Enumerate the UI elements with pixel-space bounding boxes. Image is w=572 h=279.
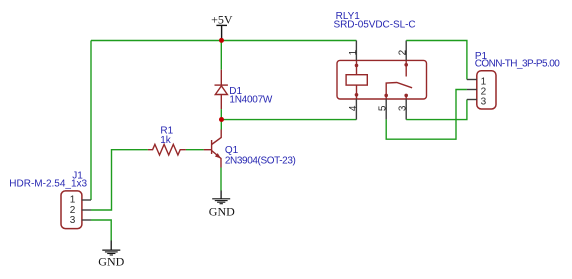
wire: relay pin 5 to P1 pin 2 <box>386 90 467 140</box>
svg-text:Q1: Q1 <box>225 145 239 156</box>
svg-text:1: 1 <box>70 195 76 206</box>
pin stub RLY1-3 <box>405 99 407 120</box>
relay RLY1 body <box>337 60 427 99</box>
svg-text:1: 1 <box>348 49 359 55</box>
ground: Q1 emitter GND <box>212 191 230 204</box>
ground: J1 pin 3 GND <box>102 241 120 256</box>
junction: coil bottom <box>355 93 359 97</box>
wire: +5V top rail from left column to relay pin 1 <box>91 40 356 42</box>
relay coil <box>346 60 367 99</box>
wire: junction to D1 cathode pin <box>220 41 222 70</box>
pin stub J1-2 <box>82 209 91 211</box>
wire: D1 anode to collector node <box>220 109 222 120</box>
svg-text:3: 3 <box>70 215 76 226</box>
pin stub P1-2 <box>467 89 477 91</box>
pin stub J1-1 <box>82 199 91 201</box>
wire: relay pin 2 to P1 pin 1 <box>406 41 467 80</box>
pin stub RLY1-4 <box>355 99 357 120</box>
connector J1 <box>61 191 82 229</box>
svg-text:HDR-M-2.54_1x3: HDR-M-2.54_1x3 <box>9 179 87 190</box>
svg-text:3: 3 <box>481 96 487 107</box>
resistor R1 <box>148 144 186 155</box>
wire: collector node down to Q1 collector <box>220 120 222 130</box>
wire: J1 pin 3 down to ground <box>91 220 111 241</box>
wire: left vertical from top rail down to J1 pin 1 <box>90 41 92 201</box>
power +5V <box>211 12 233 40</box>
relay switch <box>386 60 412 99</box>
svg-text:CONN-TH_3P-P5.00: CONN-TH_3P-P5.00 <box>475 59 561 70</box>
connector P1 <box>477 71 496 109</box>
pin stub P1-3 <box>467 99 477 101</box>
svg-text:SRD-05VDC-SL-C: SRD-05VDC-SL-C <box>334 20 416 31</box>
wire: relay pin 3 to P1 pin 3 <box>406 100 467 120</box>
pin stub RLY1-5 <box>385 99 387 119</box>
pin stub RLY1-1 <box>355 41 357 61</box>
svg-text:4: 4 <box>348 105 359 111</box>
junction: NC contact bottom <box>404 94 408 98</box>
diode D1 <box>215 70 228 109</box>
junction: switch common <box>384 94 388 98</box>
wire: R1 to Q1 base <box>186 149 204 151</box>
svg-text:3: 3 <box>398 105 409 111</box>
svg-text:1k: 1k <box>160 135 172 146</box>
svg-text:GND: GND <box>209 205 235 219</box>
transistor Q1 <box>204 130 222 168</box>
junction: coil top <box>355 64 359 68</box>
svg-text:2N3904(SOT-23): 2N3904(SOT-23) <box>225 156 296 167</box>
svg-text:GND: GND <box>98 255 124 269</box>
svg-text:2: 2 <box>398 49 409 55</box>
pin stub P1-1 <box>467 79 477 81</box>
junction: NO contact top <box>404 63 408 67</box>
junction: collector node <box>219 117 224 122</box>
wire: Q1 emitter to ground <box>220 168 222 191</box>
junction: +5V node <box>219 38 224 43</box>
svg-text:1N4007W: 1N4007W <box>229 95 273 106</box>
pin stub RLY1-2 <box>405 41 407 61</box>
svg-text:5: 5 <box>378 105 389 111</box>
pin stub J1-3 <box>82 219 91 221</box>
wire: bottom rail from collector node to relay pin 4 <box>221 119 356 121</box>
svg-text:+5V: +5V <box>211 12 233 26</box>
wire: J1 pin 2 to R1 <box>91 150 148 210</box>
